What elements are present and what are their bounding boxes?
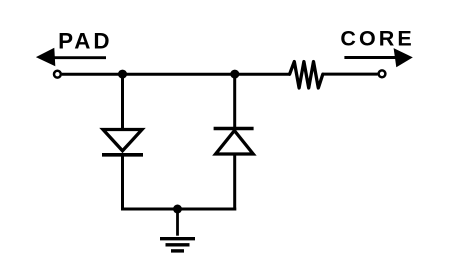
- wire ground stub: [176, 209, 179, 236]
- terminal PAD (open circle): [54, 71, 61, 78]
- wire bottom rail: [121, 208, 236, 211]
- svg-text:CORE: CORE: [340, 27, 415, 51]
- ground: [160, 239, 195, 251]
- node ground junction: [173, 205, 182, 214]
- arrow to PAD: [36, 48, 106, 66]
- terminal CORE (open circle): [379, 70, 386, 77]
- resistor R1: [290, 62, 323, 88]
- wire top rail left: [62, 73, 290, 76]
- svg-text:PAD: PAD: [58, 28, 112, 53]
- wire resistor to CORE terminal: [323, 73, 378, 76]
- diode D1 (anode top, cathode bottom): [102, 130, 143, 155]
- wire D1 to bottom rail: [121, 155, 124, 211]
- diode D2 (cathode top, anode bottom): [214, 129, 254, 155]
- node junction right: [230, 70, 239, 79]
- wire diode D2 branch: [233, 74, 236, 131]
- node junction left: [118, 70, 127, 79]
- arrow to CORE: [344, 48, 412, 67]
- wire diode D1 branch: [121, 74, 124, 130]
- wire D2 to bottom rail: [233, 154, 236, 211]
